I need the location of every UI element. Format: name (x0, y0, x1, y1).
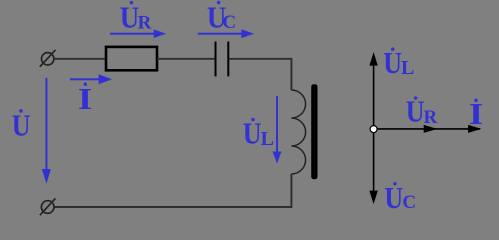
wire: capacitor to top-right corner, down to coil (229, 59, 291, 90)
svg-text:U: U (12, 109, 31, 144)
phasor label U_L with dot (383, 46, 414, 81)
svg-text:L: L (401, 57, 414, 79)
svg-text:R: R (138, 12, 152, 33)
inductor L coil arcs (291, 90, 305, 174)
arrow U down (42, 78, 51, 184)
svg-text:L: L (261, 128, 274, 150)
svg-text:U: U (384, 181, 403, 216)
svg-text:U: U (243, 117, 262, 152)
arrow I (70, 74, 112, 84)
phasor label U_R with dot (406, 95, 438, 130)
resistor R (106, 47, 157, 70)
svg-text:I: I (469, 98, 483, 132)
label U_R with dot (120, 1, 152, 35)
wire: resistor to capacitor (157, 58, 216, 60)
label U (source) with dot (12, 109, 31, 144)
svg-text:U: U (406, 95, 425, 130)
phasor I arrowhead (468, 125, 481, 133)
phasor up arrowhead (U_L) (369, 52, 377, 66)
label I with dot (78, 82, 92, 116)
phasor label U_C with dot (384, 181, 416, 216)
arrow U_R (110, 29, 166, 38)
label U_L (circuit) with dot (243, 117, 274, 152)
svg-text:U: U (383, 46, 402, 81)
capacitor C plates (216, 42, 229, 77)
phasor vertical axis (373, 63, 375, 192)
wire top: terminal to resistor (54, 58, 106, 60)
label U_C with dot (207, 1, 236, 35)
phasor label I with dot (469, 98, 483, 132)
terminal bottom-left (40, 198, 56, 215)
svg-text:I: I (78, 83, 92, 117)
phasor origin node (370, 126, 377, 133)
arrow U_L down (273, 96, 282, 163)
phasor down arrowhead (U_C) (369, 191, 377, 205)
svg-text:U: U (120, 1, 139, 35)
svg-text:C: C (402, 192, 416, 213)
svg-text:C: C (222, 12, 236, 33)
terminal top-left (40, 50, 56, 67)
phasor U_R arrowhead (424, 125, 438, 133)
svg-text:R: R (424, 107, 438, 128)
inductor core bar (311, 84, 317, 179)
phasor horizontal axis (374, 128, 480, 130)
arrow U_C (198, 29, 254, 38)
wire: coil to bottom wire, back to terminal (54, 174, 291, 207)
